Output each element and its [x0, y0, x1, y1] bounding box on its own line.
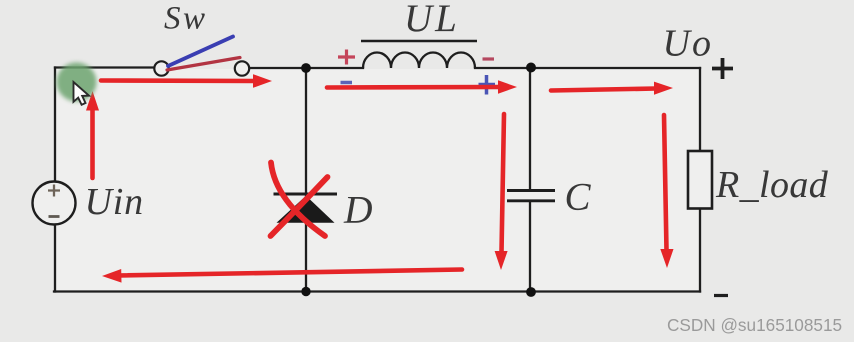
current arrow under inductor (rightward) [327, 80, 517, 93]
node D (capacitor bottom junction) [526, 287, 536, 297]
inductor overline [361, 40, 477, 43]
inductor polarity red minus (right) [483, 57, 495, 60]
node B (capacitor top junction) [526, 63, 536, 73]
output minus terminal [714, 294, 728, 297]
current arrow capacitor (downward) [495, 114, 508, 270]
switch red lever (closing position) [167, 58, 240, 71]
switch blue lever (open position) [168, 37, 233, 67]
node C (diode bottom junction) [301, 287, 310, 296]
wire switch to node A [249, 67, 363, 69]
wire diode branch [305, 68, 307, 292]
current arrow source (upward) [86, 91, 99, 178]
wire top-left segment [55, 66, 155, 68]
wire capacitor branch upper [529, 68, 531, 190]
voltage source Uin [33, 182, 76, 225]
capacitor C [507, 191, 555, 201]
wire bottom [54, 290, 700, 292]
wire inductor to node B and to output corner [475, 67, 700, 69]
switch Sw [154, 37, 249, 76]
red cross stroke 2 over diode [271, 177, 328, 236]
node A (diode top junction) [301, 63, 311, 73]
wire right vertical lower [699, 209, 701, 292]
inductor polarity blue plus (right) [479, 75, 496, 95]
current arrow to output (rightward) [551, 82, 673, 95]
svg-text:C: C [565, 175, 592, 218]
red cross stroke 1 over diode [271, 163, 325, 237]
mouse cursor [74, 82, 90, 105]
svg-text:D: D [343, 188, 373, 232]
current arrow top-left (rightward) [101, 74, 272, 88]
green highlight blob [57, 63, 97, 102]
output plus terminal [712, 58, 733, 79]
svg-text:CSDN @su165108515: CSDN @su165108515 [667, 315, 842, 335]
wire left vertical upper [54, 68, 56, 182]
diode D [274, 194, 338, 223]
inductor polarity blue minus (left) [341, 81, 353, 85]
wire left vertical lower [54, 225, 56, 292]
current arrow bottom return (leftward) [102, 269, 462, 283]
svg-text:R_load: R_load [715, 164, 829, 206]
wire capacitor branch lower [529, 201, 531, 292]
svg-text:Uin: Uin [85, 181, 144, 223]
resistor R_load [688, 151, 712, 209]
svg-text:Uo: Uo [663, 23, 713, 65]
inductor UL [363, 52, 475, 68]
svg-text:Sw: Sw [164, 1, 208, 37]
current arrow load (downward) [660, 115, 673, 268]
svg-text:UL: UL [404, 0, 460, 40]
wire right vertical upper [699, 68, 701, 151]
inductor polarity red plus (left) [338, 50, 355, 65]
